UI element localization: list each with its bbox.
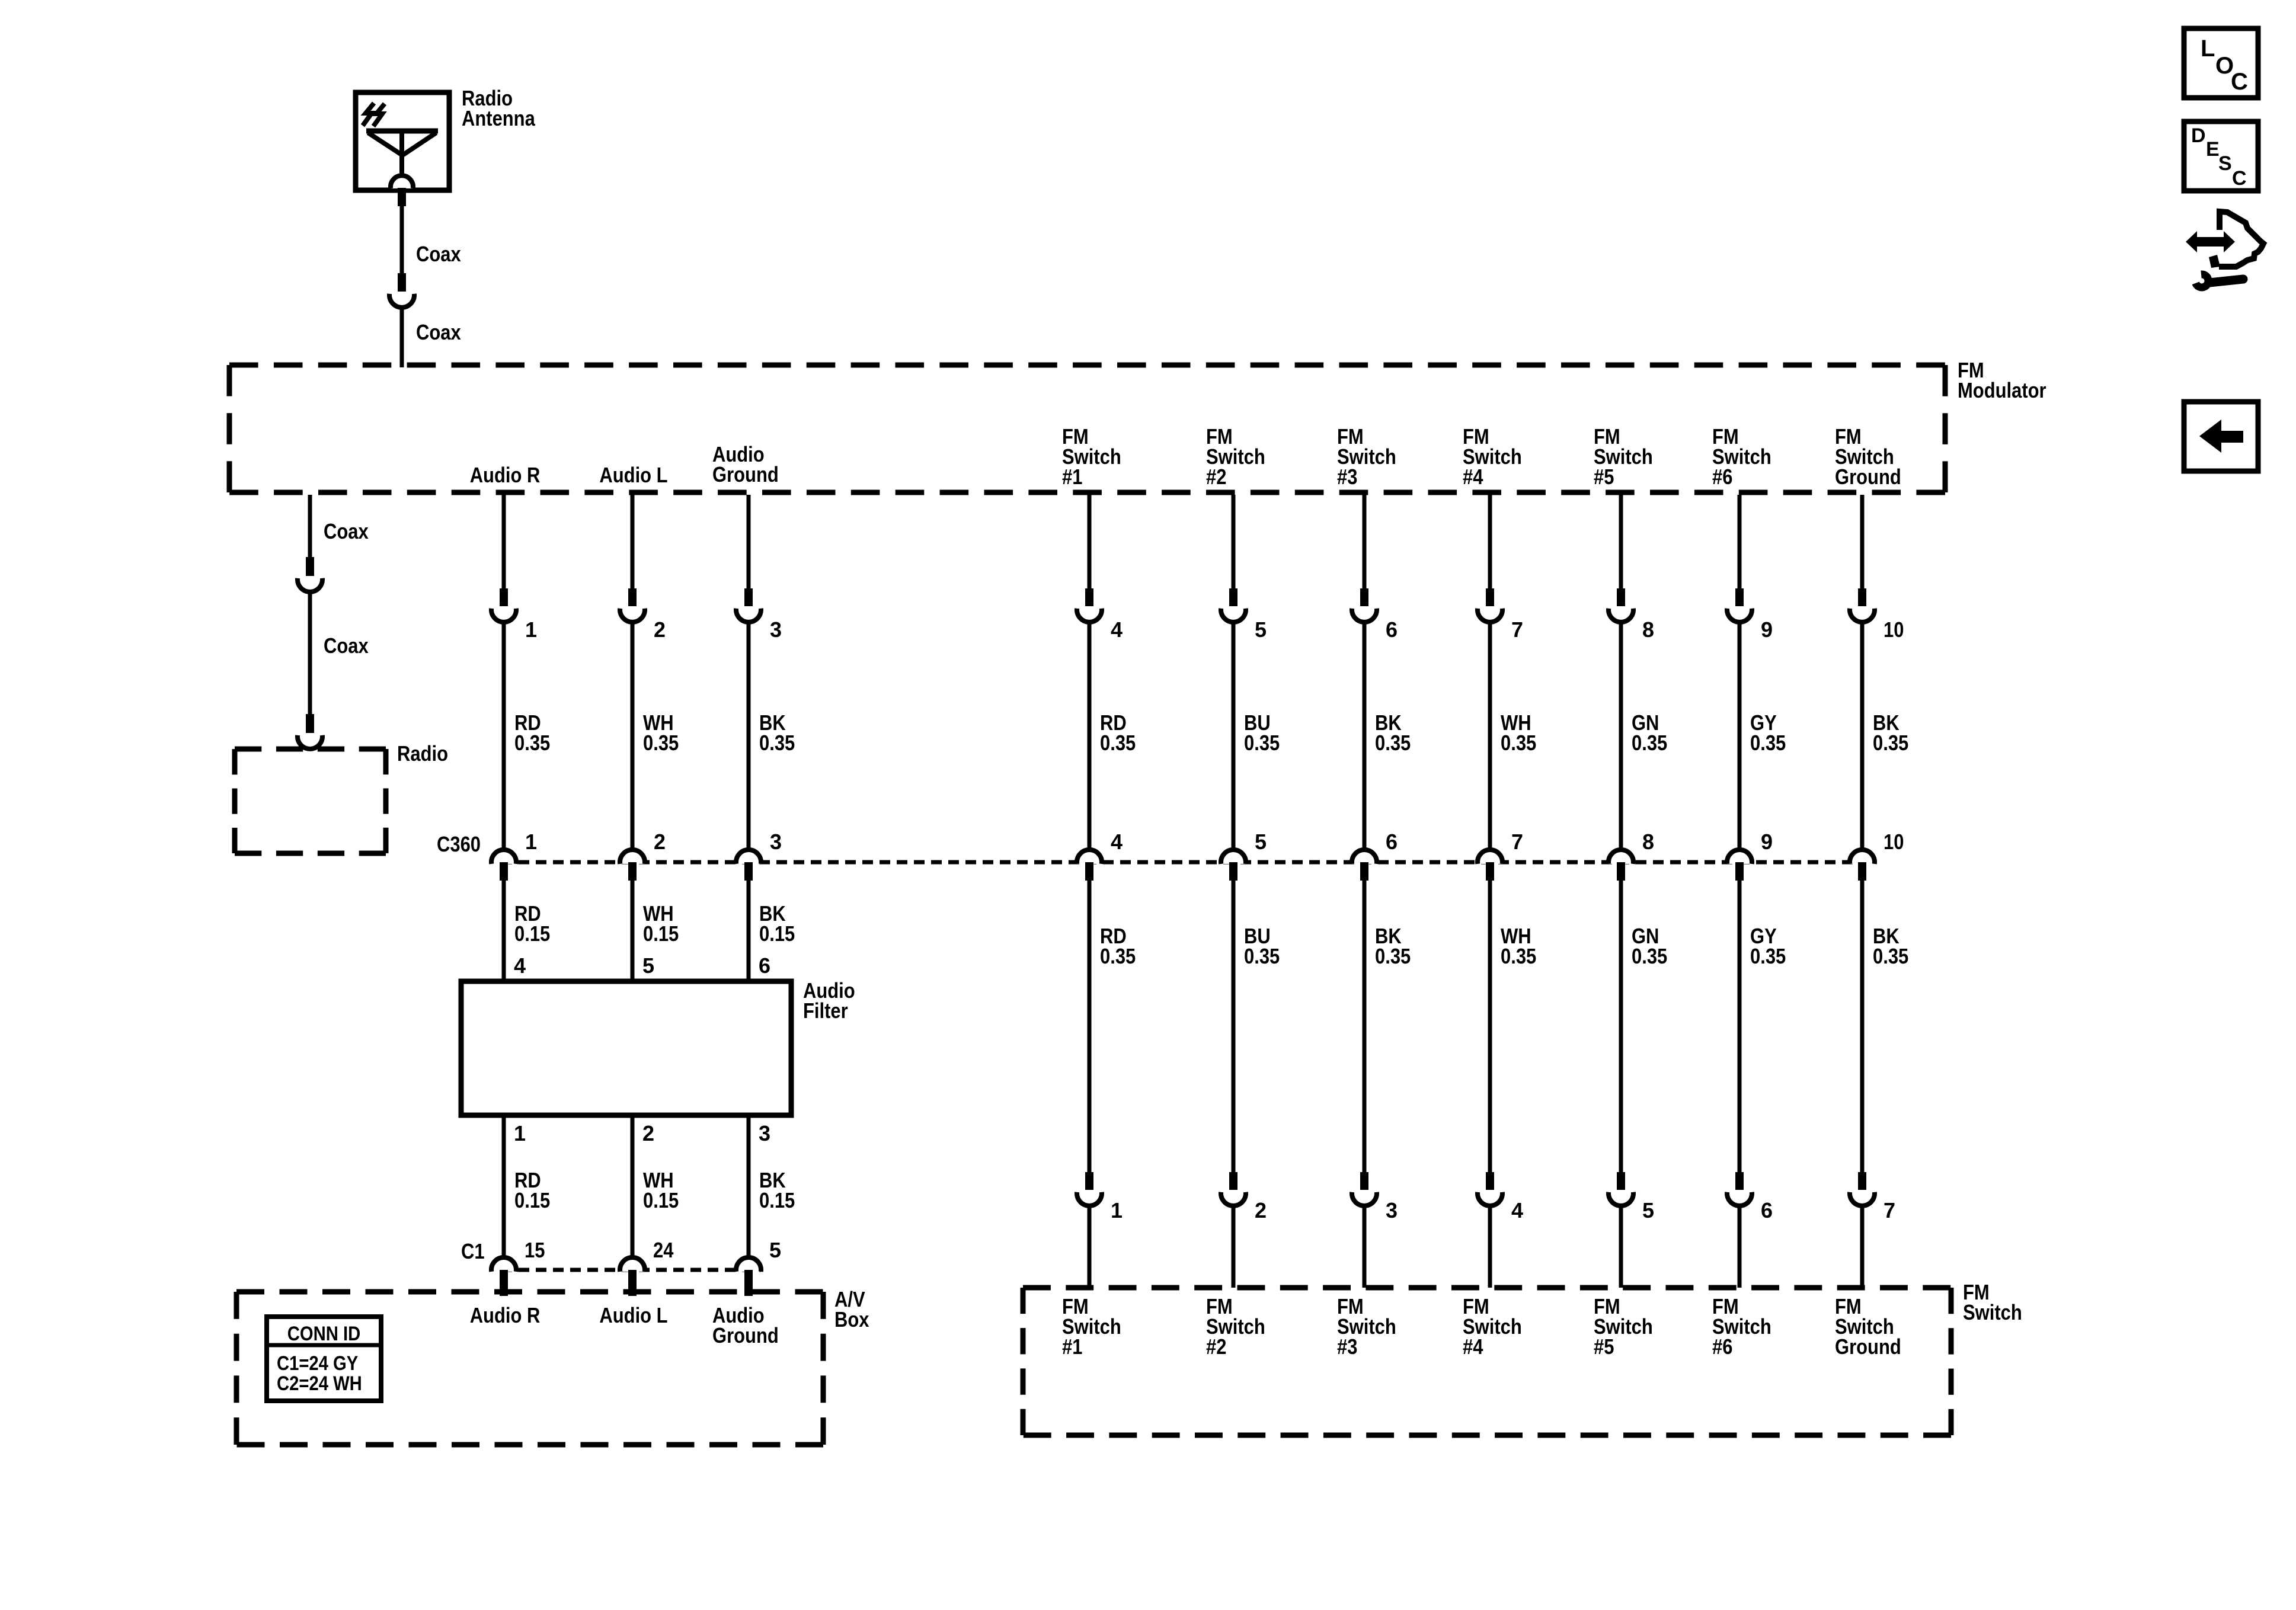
svg-text:0.35: 0.35 bbox=[759, 731, 795, 755]
svg-text:0.35: 0.35 bbox=[1501, 731, 1536, 755]
node FM Switch #1 (FM modulator) bbox=[1062, 424, 1121, 489]
svg-text:0.15: 0.15 bbox=[643, 921, 679, 946]
wire label WH 0.15 bbox=[643, 901, 679, 946]
svg-text:7: 7 bbox=[1511, 617, 1523, 642]
wire column 8 to FM switch bbox=[1619, 1205, 1623, 1288]
in-line connector pin 8 bbox=[1609, 588, 1633, 622]
svg-text:5: 5 bbox=[642, 953, 654, 978]
in-line connector pin 10 bbox=[1850, 588, 1875, 622]
svg-text:#4: #4 bbox=[1463, 465, 1483, 489]
wire column 4 to FM switch bbox=[1088, 1205, 1092, 1288]
svg-text:10: 10 bbox=[1884, 830, 1904, 854]
Radio box bbox=[235, 749, 386, 853]
svg-text:0.35: 0.35 bbox=[1873, 731, 1908, 755]
svg-text:E: E bbox=[2206, 138, 2220, 161]
svg-text:#2: #2 bbox=[1206, 465, 1226, 489]
connector C1 pin 15 bbox=[491, 1257, 516, 1296]
svg-text:#2: #2 bbox=[1206, 1334, 1226, 1359]
node FM Switch Ground (FM switch) bbox=[1835, 1294, 1901, 1359]
label FM Modulator bbox=[1958, 358, 2046, 402]
wire column 10 to FM switch bbox=[1860, 1205, 1865, 1288]
LOC icon bbox=[2184, 28, 2258, 98]
svg-text:0.35: 0.35 bbox=[1244, 944, 1280, 968]
wire RD 0.15 column 1 to audio filter bbox=[502, 881, 506, 984]
wire BU 0.35 column 5 bbox=[1232, 622, 1236, 850]
svg-text:Audio L: Audio L bbox=[599, 463, 667, 487]
svg-text:10: 10 bbox=[1884, 617, 1904, 642]
wire column 1 from FM modulator bbox=[502, 495, 506, 590]
svg-text:CONN ID: CONN ID bbox=[287, 1323, 361, 1345]
wire BU 0.35 column 5 bbox=[1232, 881, 1236, 1173]
svg-text:1: 1 bbox=[525, 617, 537, 642]
svg-text:6: 6 bbox=[1386, 830, 1398, 854]
wire column 3 from FM modulator bbox=[747, 495, 751, 590]
svg-text:Modulator: Modulator bbox=[1958, 378, 2046, 402]
wire column 10 from FM modulator bbox=[1860, 495, 1865, 590]
wire column 6 from FM modulator bbox=[1363, 495, 1367, 590]
label Radio Antenna bbox=[462, 86, 536, 130]
DESC icon bbox=[2184, 121, 2258, 191]
back arrow icon bbox=[2184, 402, 2258, 471]
node FM Switch #4 (FM modulator) bbox=[1463, 424, 1522, 489]
svg-text:4: 4 bbox=[1111, 830, 1123, 854]
node FM Switch #3 (FM switch) bbox=[1337, 1294, 1396, 1359]
wire BK 0.35 column 3 bbox=[747, 622, 751, 850]
node FM Switch #6 (FM modulator) bbox=[1712, 424, 1771, 489]
connector C360 pin 4 bbox=[1077, 850, 1102, 881]
wire column 9 from FM modulator bbox=[1738, 495, 1742, 590]
svg-text:9: 9 bbox=[1761, 830, 1773, 854]
wire BK 0.35 column 10 bbox=[1860, 881, 1865, 1173]
svg-text:2: 2 bbox=[654, 830, 666, 854]
svg-text:L: L bbox=[2201, 36, 2215, 62]
wire coax to radio bbox=[308, 592, 312, 716]
svg-text:4: 4 bbox=[1511, 1198, 1523, 1222]
wire RD 0.35 column 1 bbox=[502, 622, 506, 850]
svg-text:#4: #4 bbox=[1463, 1334, 1483, 1359]
svg-text:C: C bbox=[2232, 167, 2247, 190]
svg-text:D: D bbox=[2191, 124, 2206, 147]
svg-text:Box: Box bbox=[834, 1307, 869, 1331]
svg-text:0.35: 0.35 bbox=[1100, 944, 1136, 968]
wire RD 0.35 column 4 bbox=[1088, 881, 1092, 1173]
connector C360 pin 9 bbox=[1727, 850, 1752, 881]
svg-text:15: 15 bbox=[525, 1238, 545, 1262]
svg-text:C: C bbox=[2231, 69, 2248, 95]
svg-text:0.15: 0.15 bbox=[514, 921, 550, 946]
svg-text:Ground: Ground bbox=[1835, 465, 1901, 489]
wire GY 0.35 column 9 bbox=[1738, 622, 1742, 850]
svg-text:2: 2 bbox=[1255, 1198, 1267, 1222]
node FM Switch #1 (FM switch) bbox=[1062, 1294, 1121, 1359]
wire WH 0.35 column 2 bbox=[631, 622, 635, 850]
svg-text:Switch: Switch bbox=[1963, 1300, 2022, 1324]
svg-text:8: 8 bbox=[1642, 617, 1654, 642]
connector C1 pin 24 bbox=[620, 1257, 645, 1296]
wire label BU 0.35 bbox=[1244, 710, 1280, 755]
wire label RD 0.35 bbox=[1100, 924, 1136, 968]
connector C360 pin 6 bbox=[1352, 850, 1377, 881]
connector C360 pin 5 bbox=[1221, 850, 1246, 881]
svg-text:5: 5 bbox=[1642, 1198, 1654, 1222]
wire label WH 0.35 bbox=[1501, 924, 1536, 968]
svg-text:4: 4 bbox=[514, 953, 526, 978]
wire column 7 to FM switch bbox=[1488, 1205, 1492, 1288]
in-line connector pin 3 (FM switch harness) bbox=[1352, 1172, 1377, 1206]
svg-text:0.15: 0.15 bbox=[643, 1188, 679, 1212]
wire label BK 0.35 bbox=[1873, 710, 1908, 755]
node FM Switch #4 (FM switch) bbox=[1463, 1294, 1522, 1359]
svg-text:9: 9 bbox=[1761, 617, 1773, 642]
svg-text:6: 6 bbox=[759, 953, 770, 978]
node Audio Ground (A/V box) bbox=[712, 1303, 779, 1347]
connector C1 dashed line bbox=[501, 1268, 761, 1272]
svg-text:Ground: Ground bbox=[1835, 1334, 1901, 1359]
wire label BK 0.15 bbox=[759, 1168, 795, 1212]
wire BK 0.15 column 3 to audio filter bbox=[747, 881, 751, 984]
connector C360 pin 7 bbox=[1478, 850, 1502, 881]
wire label WH 0.15 bbox=[643, 1168, 679, 1212]
svg-text:Coax: Coax bbox=[324, 519, 369, 543]
node FM Switch #5 (FM switch) bbox=[1594, 1294, 1653, 1359]
svg-text:3: 3 bbox=[1386, 1198, 1398, 1222]
in-line connector pin 4 (FM switch harness) bbox=[1478, 1172, 1502, 1206]
wire label RD 0.35 bbox=[1100, 710, 1136, 755]
svg-text:7: 7 bbox=[1884, 1198, 1895, 1222]
wire column 5 from FM modulator bbox=[1232, 495, 1236, 590]
wire label WH 0.35 bbox=[1501, 710, 1536, 755]
svg-text:0.35: 0.35 bbox=[1750, 731, 1786, 755]
wire WH 0.35 column 7 bbox=[1488, 622, 1492, 850]
svg-text:C1=24 GY: C1=24 GY bbox=[277, 1352, 359, 1375]
in-line connector pin 6 (FM switch harness) bbox=[1727, 1172, 1752, 1206]
in-line connector pin 2 (FM switch harness) bbox=[1221, 1172, 1246, 1206]
wire GY 0.35 column 9 bbox=[1738, 881, 1742, 1173]
diagnostic arrow-wrench icon bbox=[2186, 212, 2263, 287]
svg-text:0.35: 0.35 bbox=[1750, 944, 1786, 968]
wire WH 0.15 column 2 from audio filter bbox=[631, 1115, 635, 1259]
wire WH 0.35 column 7 bbox=[1488, 881, 1492, 1173]
label A/V Box bbox=[834, 1287, 869, 1331]
CONN ID table bbox=[267, 1317, 381, 1401]
node FM Switch #2 (FM switch) bbox=[1206, 1294, 1265, 1359]
svg-text:0.35: 0.35 bbox=[1632, 731, 1667, 755]
svg-text:6: 6 bbox=[1386, 617, 1398, 642]
svg-text:0.35: 0.35 bbox=[1100, 731, 1136, 755]
svg-text:#1: #1 bbox=[1062, 465, 1082, 489]
svg-text:2: 2 bbox=[642, 1121, 654, 1145]
radio antenna bbox=[356, 92, 449, 206]
svg-text:Coax: Coax bbox=[416, 320, 461, 344]
svg-text:1: 1 bbox=[525, 830, 537, 854]
FM Modulator box bbox=[229, 365, 1945, 492]
svg-text:0.35: 0.35 bbox=[514, 731, 550, 755]
label FM Switch bbox=[1963, 1280, 2022, 1324]
svg-text:#3: #3 bbox=[1337, 465, 1357, 489]
wire BK 0.35 column 6 bbox=[1363, 881, 1367, 1173]
wire label BK 0.35 bbox=[1873, 924, 1908, 968]
svg-text:#3: #3 bbox=[1337, 1334, 1357, 1359]
svg-text:0.35: 0.35 bbox=[1375, 944, 1411, 968]
wire label RD 0.15 bbox=[514, 901, 550, 946]
wire label GN 0.35 bbox=[1632, 924, 1667, 968]
wire column 6 to FM switch bbox=[1363, 1205, 1367, 1288]
wire column 9 to FM switch bbox=[1738, 1205, 1742, 1288]
wire coax to FM modulator bbox=[400, 308, 404, 367]
wire GN 0.35 column 8 bbox=[1619, 881, 1623, 1173]
wire RD 0.15 column 1 from audio filter bbox=[502, 1115, 506, 1259]
svg-text:S: S bbox=[2218, 152, 2232, 175]
wire label BK 0.15 bbox=[759, 901, 795, 946]
wire label RD 0.35 bbox=[514, 710, 550, 755]
node FM Switch #2 (FM modulator) bbox=[1206, 424, 1265, 489]
svg-text:0.35: 0.35 bbox=[1632, 944, 1667, 968]
wire RD 0.35 column 4 bbox=[1088, 622, 1092, 850]
wire label GY 0.35 bbox=[1750, 924, 1786, 968]
svg-text:Audio R: Audio R bbox=[470, 463, 541, 487]
svg-text:#6: #6 bbox=[1712, 465, 1732, 489]
wire label WH 0.35 bbox=[643, 710, 679, 755]
coax connector at radio bbox=[298, 714, 322, 749]
connector C360 pin 8 bbox=[1609, 850, 1633, 881]
in-line connector pin 7 bbox=[1478, 588, 1502, 622]
svg-text:Radio: Radio bbox=[397, 741, 448, 766]
wire column 4 from FM modulator bbox=[1088, 495, 1092, 590]
connector C360 pin 1 bbox=[491, 850, 516, 881]
node FM Switch Ground (FM modulator) bbox=[1835, 424, 1901, 489]
svg-text:1: 1 bbox=[1111, 1198, 1123, 1222]
wire coax from FM modulator bbox=[308, 495, 312, 557]
wire label BK 0.35 bbox=[1375, 924, 1411, 968]
svg-text:2: 2 bbox=[654, 617, 666, 642]
connector C360 pin 10 bbox=[1850, 850, 1875, 881]
node Audio Ground (FM modulator) bbox=[712, 442, 779, 486]
connector C1 pin 5 bbox=[736, 1257, 761, 1296]
connector C360 pin 3 bbox=[736, 850, 761, 881]
svg-text:Audio L: Audio L bbox=[599, 1303, 667, 1327]
svg-text:5: 5 bbox=[769, 1238, 781, 1262]
svg-text:5: 5 bbox=[1255, 830, 1267, 854]
wire BK 0.15 column 3 from audio filter bbox=[747, 1115, 751, 1259]
wire coax from antenna bbox=[400, 206, 404, 275]
svg-text:Ground: Ground bbox=[712, 1323, 779, 1347]
svg-text:3: 3 bbox=[770, 617, 782, 642]
wire BK 0.35 column 6 bbox=[1363, 622, 1367, 850]
svg-text:#5: #5 bbox=[1594, 1334, 1614, 1359]
svg-text:0.35: 0.35 bbox=[1244, 731, 1280, 755]
svg-text:0.35: 0.35 bbox=[1501, 944, 1536, 968]
svg-text:0.35: 0.35 bbox=[643, 731, 679, 755]
svg-text:24: 24 bbox=[653, 1238, 673, 1262]
svg-text:Filter: Filter bbox=[803, 998, 848, 1023]
wire BK 0.35 column 10 bbox=[1860, 622, 1865, 850]
label Audio Filter bbox=[803, 978, 855, 1023]
svg-text:C360: C360 bbox=[437, 832, 481, 856]
wire label BK 0.35 bbox=[1375, 710, 1411, 755]
node FM Switch #3 (FM modulator) bbox=[1337, 424, 1396, 489]
connector C360 dashed line bbox=[501, 860, 1866, 865]
FM Switch box bbox=[1023, 1288, 1951, 1435]
svg-text:3: 3 bbox=[770, 830, 782, 854]
svg-text:0.15: 0.15 bbox=[759, 1188, 795, 1212]
wire label GY 0.35 bbox=[1750, 710, 1786, 755]
wire label BK 0.35 bbox=[759, 710, 795, 755]
in-line connector pin 4 bbox=[1077, 588, 1102, 622]
svg-text:6: 6 bbox=[1761, 1198, 1773, 1222]
in-line connector pin 5 bbox=[1221, 588, 1246, 622]
svg-text:8: 8 bbox=[1642, 830, 1654, 854]
in-line connector pin 2 bbox=[620, 588, 645, 622]
wire column 5 to FM switch bbox=[1232, 1205, 1236, 1288]
wire WH 0.15 column 2 to audio filter bbox=[631, 881, 635, 984]
svg-text:0.35: 0.35 bbox=[1873, 944, 1908, 968]
svg-text:1: 1 bbox=[514, 1121, 526, 1145]
A/V Box bbox=[236, 1292, 823, 1445]
svg-text:Coax: Coax bbox=[416, 242, 461, 266]
wire column 2 from FM modulator bbox=[631, 495, 635, 590]
svg-text:5: 5 bbox=[1255, 617, 1267, 642]
svg-text:Coax: Coax bbox=[324, 633, 369, 658]
node FM Switch #6 (FM switch) bbox=[1712, 1294, 1771, 1359]
svg-text:Audio R: Audio R bbox=[470, 1303, 541, 1327]
svg-text:0.15: 0.15 bbox=[514, 1188, 550, 1212]
in-line connector pin 9 bbox=[1727, 588, 1752, 622]
svg-text:C2=24 WH: C2=24 WH bbox=[277, 1372, 362, 1395]
wire column 8 from FM modulator bbox=[1619, 495, 1623, 590]
node FM Switch #5 (FM modulator) bbox=[1594, 424, 1653, 489]
svg-text:4: 4 bbox=[1111, 617, 1123, 642]
svg-text:3: 3 bbox=[759, 1121, 770, 1145]
audio filter box bbox=[461, 981, 791, 1115]
connector C360 pin 2 bbox=[620, 850, 645, 881]
wire label BU 0.35 bbox=[1244, 924, 1280, 968]
wire label RD 0.15 bbox=[514, 1168, 550, 1212]
svg-text:C1: C1 bbox=[461, 1239, 485, 1263]
coax inline connector bbox=[389, 273, 414, 308]
in-line connector pin 7 (FM switch harness) bbox=[1850, 1172, 1875, 1206]
in-line connector pin 1 (FM switch harness) bbox=[1077, 1172, 1102, 1206]
svg-text:#1: #1 bbox=[1062, 1334, 1082, 1359]
wire label GN 0.35 bbox=[1632, 710, 1667, 755]
in-line connector pin 6 bbox=[1352, 588, 1377, 622]
svg-text:Antenna: Antenna bbox=[462, 106, 536, 130]
svg-text:0.15: 0.15 bbox=[759, 921, 795, 946]
in-line connector pin 3 bbox=[736, 588, 761, 622]
wire column 7 from FM modulator bbox=[1488, 495, 1492, 590]
svg-text:0.35: 0.35 bbox=[1375, 731, 1411, 755]
svg-text:Ground: Ground bbox=[712, 462, 779, 486]
svg-text:#5: #5 bbox=[1594, 465, 1614, 489]
svg-text:7: 7 bbox=[1511, 830, 1523, 854]
in-line connector pin 5 (FM switch harness) bbox=[1609, 1172, 1633, 1206]
in-line connector pin 1 bbox=[491, 588, 516, 622]
coax inline connector bbox=[298, 557, 322, 592]
wire GN 0.35 column 8 bbox=[1619, 622, 1623, 850]
svg-text:#6: #6 bbox=[1712, 1334, 1732, 1359]
